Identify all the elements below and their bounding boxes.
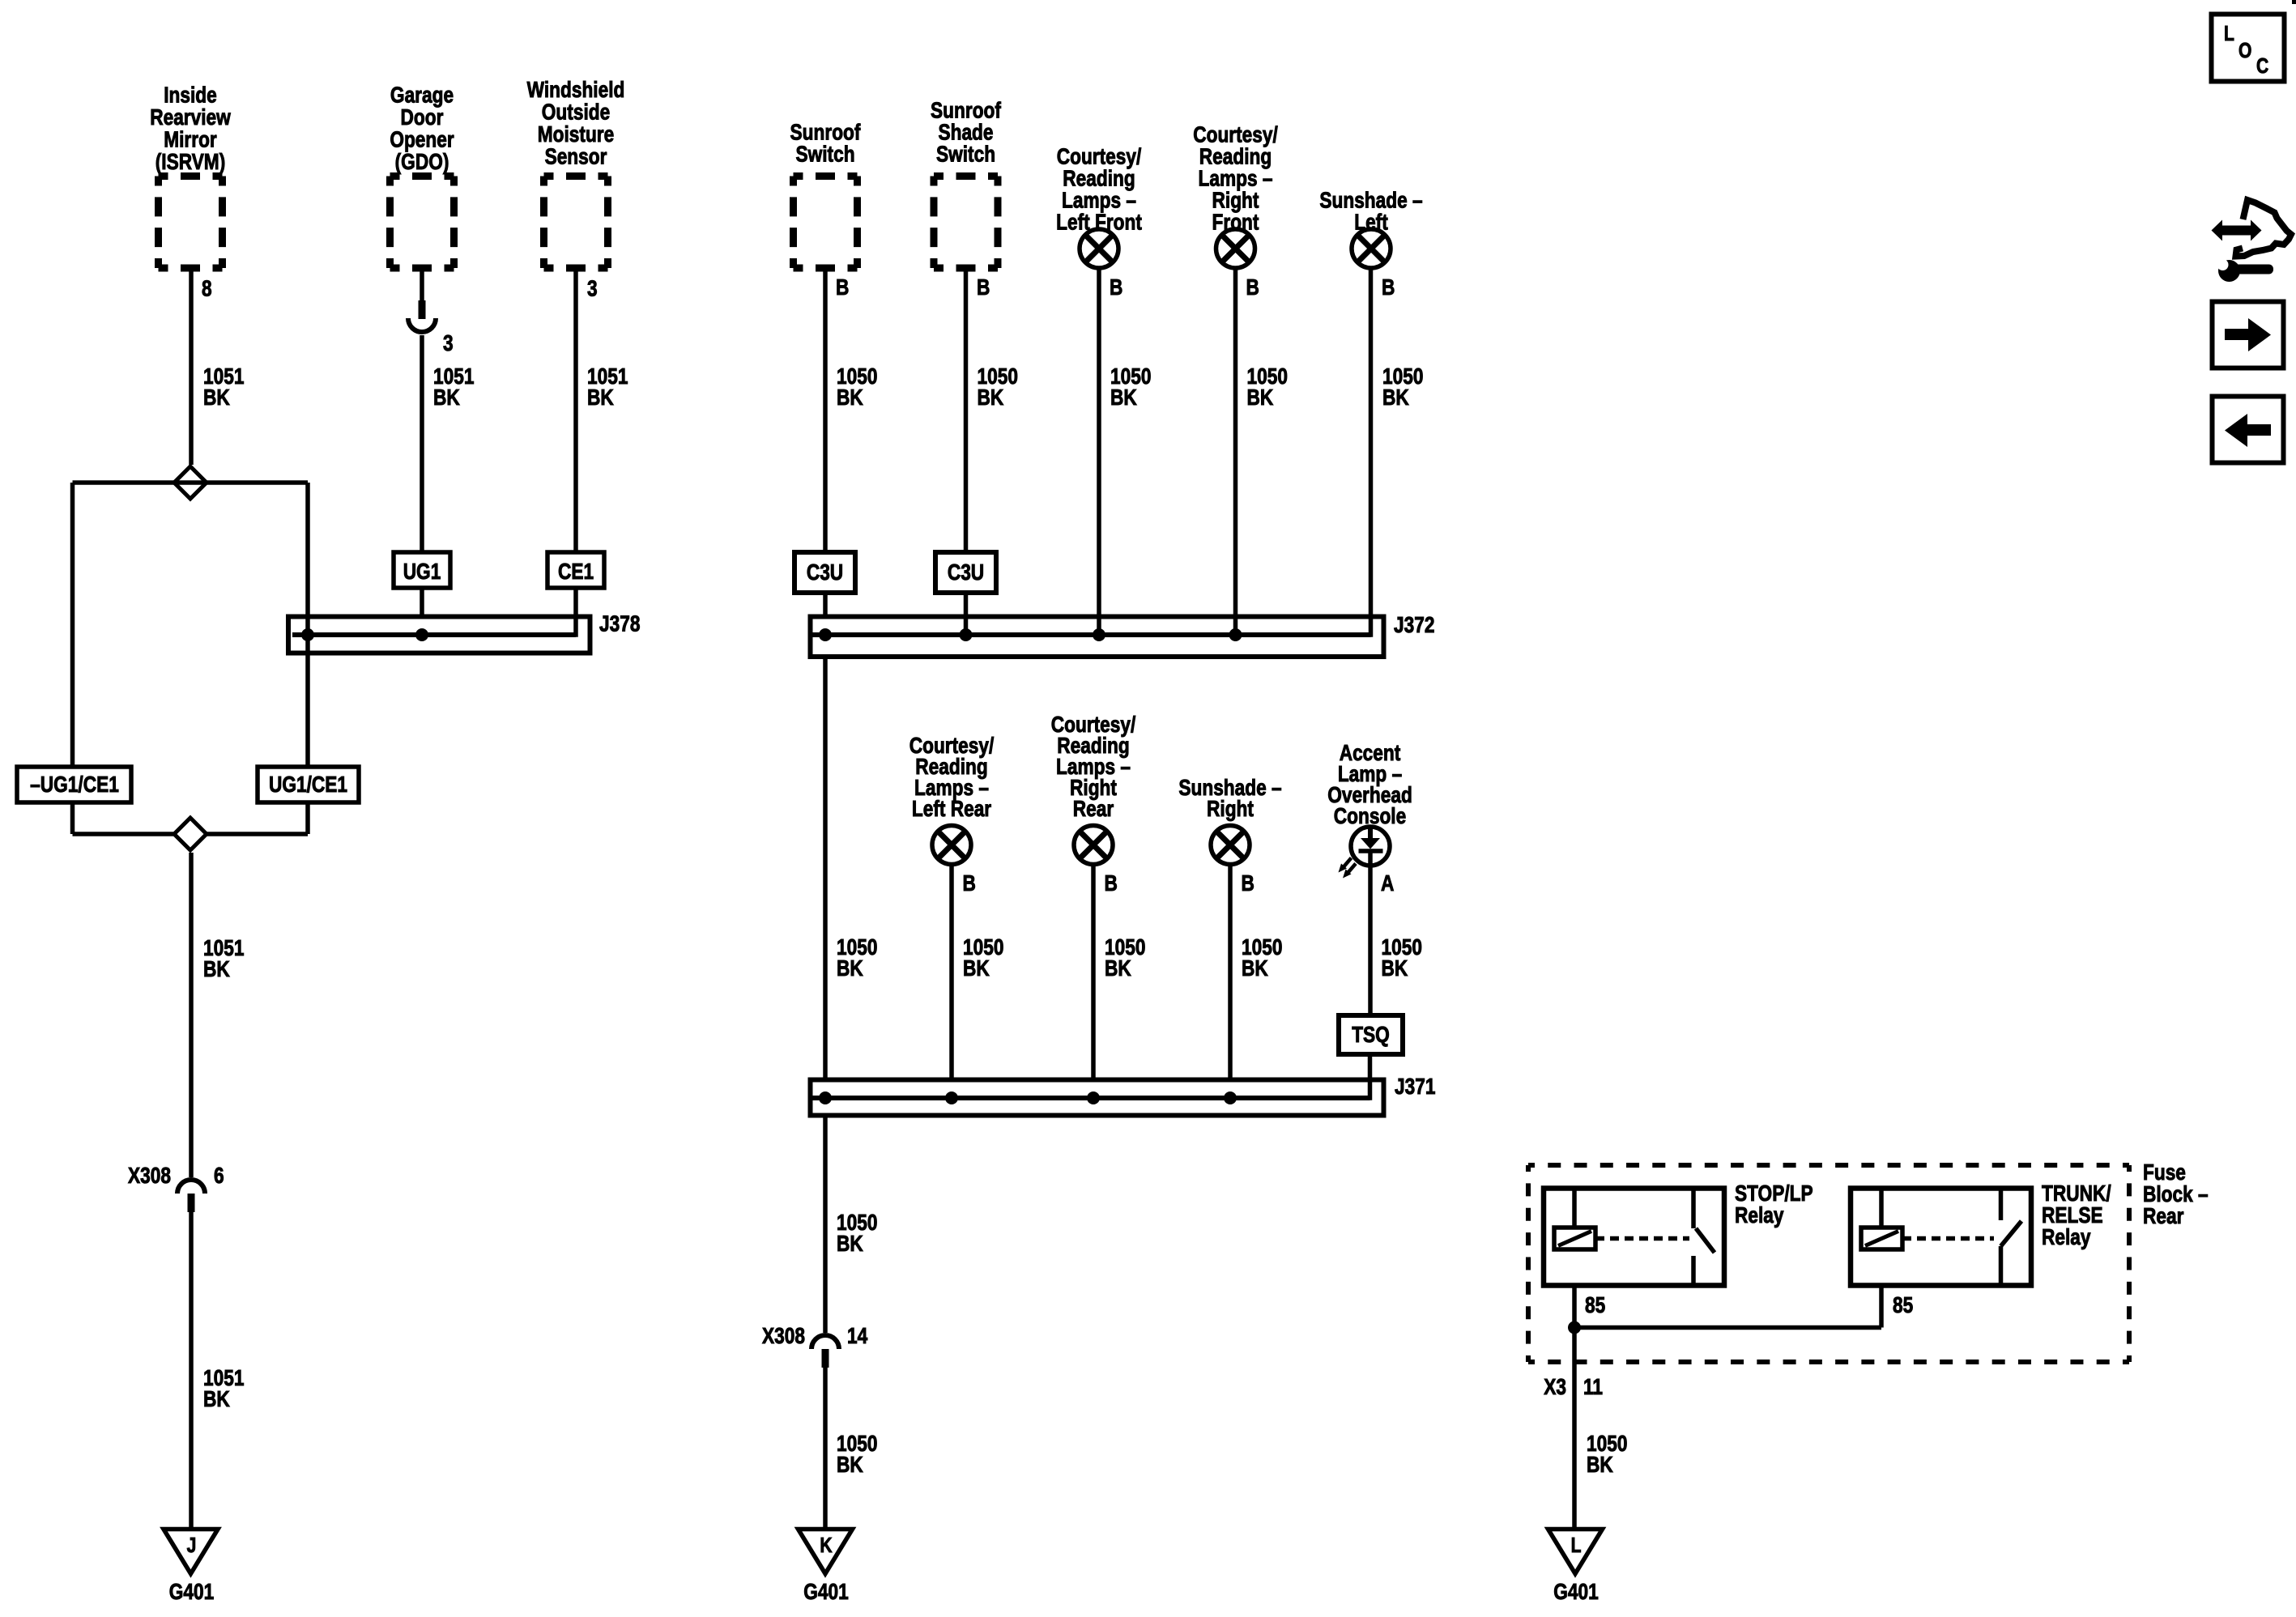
- component label Sunroof Switch: [790, 120, 861, 167]
- wire GDO to connector pin: [420, 272, 424, 301]
- connector sunroof switch (dashed box): [794, 177, 858, 269]
- svg-text:BK: BK: [837, 1453, 863, 1478]
- wire joining relay grounds: [1574, 1326, 1881, 1330]
- connector ISRVM (dashed box): [159, 177, 223, 269]
- wire label 1050 BK (sunshade left): [1382, 364, 1423, 411]
- svg-text:G401: G401: [803, 1580, 848, 1605]
- wire feeder J371 to X308-14: [823, 1116, 828, 1334]
- pin letter B (sunshade right): [1242, 871, 1254, 896]
- wire left branch lower: [70, 802, 75, 834]
- svg-text:B: B: [836, 275, 849, 300]
- relay TRUNK/RELSE coil: [1861, 1189, 1902, 1250]
- svg-text:G401: G401: [1553, 1580, 1598, 1605]
- svg-text:C3U: C3U: [948, 560, 984, 585]
- wire sensor pin 3 down: [573, 272, 578, 553]
- lamp Courtesy/Reading Left Front: [1080, 229, 1118, 268]
- svg-text:B: B: [977, 275, 990, 300]
- svg-text:J378: J378: [599, 611, 640, 636]
- pin number 85 (STOP/LP): [1585, 1293, 1605, 1318]
- component label Sunshade - Right: [1178, 776, 1281, 822]
- svg-text:–UG1/CE1: –UG1/CE1: [30, 772, 119, 798]
- wire label 1050 BK (shade switch): [978, 364, 1018, 411]
- svg-text:B: B: [1246, 275, 1259, 300]
- svg-text:BK: BK: [1382, 385, 1409, 411]
- svg-text:BK: BK: [203, 1387, 230, 1412]
- svg-text:K: K: [820, 1534, 832, 1558]
- wire label 1051 BK (sensor): [587, 364, 628, 411]
- wire sunroof switch pin B: [823, 272, 828, 553]
- svg-text:(ISRVM): (ISRVM): [155, 150, 225, 175]
- svg-text:Windshield: Windshield: [527, 78, 625, 103]
- wire shade switch pin B: [964, 272, 969, 553]
- relay TRUNK/RELSE switch contact: [2001, 1189, 2022, 1286]
- ground G401 L: [1548, 1530, 1603, 1605]
- wire connector to UG1 box: [420, 335, 424, 552]
- wire label 1050 BK (lamp RF): [1247, 364, 1288, 411]
- svg-text:BK: BK: [978, 385, 1004, 411]
- fuse block rear (dashed boundary): [1528, 1165, 2129, 1362]
- pin letter B (lamp RR): [1105, 871, 1118, 896]
- svg-text:Switch: Switch: [936, 142, 995, 167]
- component label Windshield Outside Moisture Sensor: [527, 78, 625, 169]
- net name box TSQ: [1339, 1015, 1403, 1054]
- wire label 1050 BK (to G401 L): [1587, 1432, 1627, 1478]
- component label Courtesy/Reading Lamps - Right Front: [1193, 122, 1278, 235]
- wire lamp LF pin B to J372: [1097, 267, 1101, 637]
- svg-text:(GDO): (GDO): [395, 150, 449, 175]
- pin number 85 (TRUNK/RELSE): [1893, 1293, 1913, 1318]
- svg-text:J: J: [187, 1534, 197, 1558]
- svg-text:BK: BK: [1242, 956, 1268, 981]
- svg-text:L: L: [1571, 1534, 1582, 1558]
- svg-text:Relay: Relay: [2042, 1225, 2091, 1250]
- svg-text:C: C: [2256, 55, 2268, 79]
- svg-text:14: 14: [847, 1324, 868, 1349]
- relay STOP/LP actuating dashed link: [1595, 1236, 1689, 1241]
- splice pack J378: [288, 617, 590, 653]
- svg-text:B: B: [1242, 871, 1254, 896]
- svg-text:Rearview: Rearview: [150, 105, 231, 130]
- wire TSQ to J371: [1368, 1054, 1373, 1100]
- svg-text:85: 85: [1585, 1293, 1605, 1318]
- svg-text:Outside: Outside: [542, 100, 610, 125]
- svg-text:BK: BK: [1587, 1453, 1613, 1478]
- connector X308 pin 6: [128, 1164, 224, 1212]
- wire left branch down: [70, 483, 75, 767]
- splice diamond S2: [174, 818, 207, 850]
- component label Courtesy/Reading Lamps - Left Front: [1056, 144, 1142, 235]
- page corner tick: [2292, 0, 2296, 4]
- svg-text:Inside: Inside: [164, 83, 217, 108]
- pin letter B (sunshade left): [1382, 275, 1395, 300]
- pin letter B (lamp RF): [1246, 275, 1259, 300]
- relay STOP/LP switch contact: [1693, 1189, 1715, 1286]
- pin number 8: [202, 276, 212, 301]
- wire label 1051 BK (to G401 J): [203, 1366, 244, 1412]
- svg-text:BK: BK: [203, 385, 230, 411]
- wire sunshade-right pin B to J371: [1228, 863, 1233, 1080]
- svg-text:X308: X308: [128, 1164, 171, 1189]
- relay TRUNK/RELSE actuating dashed link: [1902, 1236, 1994, 1241]
- wire splice to X308-6: [189, 853, 194, 1177]
- svg-text:L: L: [2224, 23, 2234, 46]
- net name box CE1: [547, 552, 604, 588]
- relay label STOP/LP Relay: [1735, 1181, 1813, 1228]
- svg-text:Switch: Switch: [795, 142, 854, 167]
- pin letter A (accent lamp): [1381, 871, 1394, 896]
- wire label 1050 BK (lamp LF): [1110, 364, 1151, 411]
- relay STOP/LP (box): [1544, 1189, 1724, 1286]
- wire label 1051 BK (to X308): [203, 936, 244, 982]
- wire label 1050 BK (feeder lower): [837, 1211, 877, 1257]
- svg-text:BK: BK: [837, 956, 863, 981]
- svg-text:BK: BK: [1382, 956, 1408, 981]
- svg-text:UG1: UG1: [403, 560, 441, 585]
- lamp Sunshade Right: [1211, 826, 1250, 865]
- wire TRUNK/RELSE pin 85: [1879, 1286, 1884, 1328]
- connector label X3 pin 11: [1544, 1375, 1603, 1400]
- svg-text:B: B: [963, 871, 976, 896]
- diagnostic connector icon (outline, double arrow, wrench): [2212, 200, 2292, 282]
- svg-text:BK: BK: [1247, 385, 1274, 411]
- svg-text:BK: BK: [963, 956, 990, 981]
- svg-text:B: B: [1382, 275, 1395, 300]
- pin letter B (shade switch): [977, 275, 990, 300]
- option box UG1/CE1: [258, 767, 359, 802]
- component label Accent Lamp - Overhead Console: [1327, 741, 1412, 829]
- wire C3U to J372: [823, 593, 828, 617]
- connector moisture sensor (dashed box): [544, 177, 608, 269]
- svg-text:J371: J371: [1395, 1074, 1435, 1100]
- wire lamp RF pin B to J372: [1233, 267, 1238, 637]
- wire ISRVM pin 8 to splice diamond: [189, 272, 194, 466]
- lamp Sunshade Left: [1352, 229, 1391, 268]
- svg-text:11: 11: [1583, 1375, 1603, 1400]
- pin number 3 (sensor): [587, 276, 598, 301]
- wire accent lamp to TSQ: [1368, 866, 1373, 1015]
- back arrow box icon: [2213, 397, 2284, 463]
- wire label 1050 BK (lamp RR): [1105, 935, 1145, 981]
- svg-text:Sensor: Sensor: [545, 144, 607, 169]
- svg-text:Opener: Opener: [390, 127, 454, 152]
- lamp Courtesy/Reading Right Rear: [1074, 826, 1113, 865]
- wire right branch lower: [305, 802, 310, 834]
- svg-text:Left Rear: Left Rear: [912, 797, 991, 822]
- svg-text:CE1: CE1: [558, 560, 594, 585]
- svg-text:BK: BK: [1110, 385, 1137, 411]
- splice pack label J378: [599, 611, 640, 636]
- wire STOP/LP pin 85: [1572, 1286, 1577, 1328]
- wire branch bottom horizontal: [73, 832, 309, 836]
- svg-text:O: O: [2238, 40, 2251, 63]
- LOC location-code box icon: [2212, 15, 2285, 82]
- option box -UG1/CE1: [17, 767, 131, 802]
- svg-text:Relay: Relay: [1735, 1203, 1784, 1228]
- component label Garage Door Opener (GDO): [390, 83, 454, 174]
- inline connector pin 3 (GDO): [408, 300, 454, 356]
- pin letter B (lamp LF): [1110, 275, 1122, 300]
- wire label 1051 BK (GDO): [433, 364, 474, 411]
- wire branch top horizontal: [73, 480, 309, 485]
- svg-text:G401: G401: [169, 1580, 214, 1605]
- wire feeder J372 to J371: [823, 657, 828, 1080]
- svg-text:BK: BK: [837, 385, 863, 411]
- svg-text:3: 3: [443, 331, 454, 356]
- wire label 1050 BK (lamp LR): [963, 935, 1003, 981]
- wire lamp LR pin B to J371: [949, 863, 954, 1080]
- wire right branch down: [305, 483, 310, 767]
- splice diamond S1: [174, 466, 207, 499]
- connector GDO (dashed box): [390, 177, 454, 269]
- svg-text:X308: X308: [762, 1324, 805, 1349]
- relay label TRUNK/RELSE Relay: [2042, 1181, 2111, 1250]
- wire label 1050 BK (sunshade right): [1242, 935, 1282, 981]
- pin letter B (lamp LR): [963, 871, 976, 896]
- ground G401 J: [164, 1530, 218, 1605]
- svg-text:BK: BK: [1105, 956, 1131, 981]
- wire X308-14 to ground K: [823, 1368, 828, 1527]
- splice pack J372: [811, 617, 1384, 657]
- wire sunshade-left pin B to J372: [1369, 267, 1374, 637]
- wire lamp RR pin B to J371: [1091, 863, 1096, 1080]
- wire label 1051 BK (ISRVM): [203, 364, 244, 411]
- svg-text:6: 6: [214, 1164, 224, 1189]
- junction node (relay ground join): [1568, 1321, 1581, 1334]
- wire X308-6 to ground J: [189, 1212, 194, 1527]
- component label Sunroof Shade Switch: [931, 98, 1001, 167]
- svg-text:BK: BK: [587, 385, 614, 411]
- fuse block label Fuse Block - Rear: [2143, 1160, 2209, 1229]
- svg-text:Mirror: Mirror: [164, 127, 217, 152]
- wire UG1 box to J378: [420, 588, 424, 617]
- svg-text:J372: J372: [1394, 613, 1434, 638]
- connector X308 pin 14: [762, 1324, 868, 1368]
- svg-text:C3U: C3U: [807, 560, 843, 585]
- svg-text:Rear: Rear: [1073, 797, 1114, 822]
- wire C3U-2 to J372: [964, 593, 969, 637]
- svg-text:A: A: [1381, 871, 1394, 896]
- lamp Courtesy/Reading Right Front: [1216, 229, 1255, 268]
- forward arrow box icon: [2213, 302, 2284, 368]
- wire label 1050 BK (sunroof switch): [837, 364, 877, 411]
- wire label 1050 BK (to G401 K): [837, 1432, 877, 1478]
- svg-text:Door: Door: [401, 105, 444, 130]
- svg-text:BK: BK: [837, 1232, 863, 1257]
- wire label 1050 BK (accent lamp): [1382, 935, 1422, 981]
- svg-text:TSQ: TSQ: [1352, 1023, 1390, 1048]
- ground G401 K: [799, 1530, 853, 1605]
- net name box C3U (sunroof switch): [794, 552, 855, 593]
- wire CE1 box to J378: [573, 588, 578, 637]
- wire fuse block to ground L: [1572, 1328, 1577, 1528]
- svg-text:3: 3: [587, 276, 598, 301]
- svg-text:Rear: Rear: [2143, 1204, 2183, 1229]
- svg-text:Moisture: Moisture: [538, 122, 614, 147]
- svg-text:85: 85: [1893, 1293, 1913, 1318]
- svg-text:BK: BK: [433, 385, 460, 411]
- svg-text:X3: X3: [1544, 1375, 1566, 1400]
- splice pack label J372: [1394, 613, 1434, 638]
- relay STOP/LP coil: [1554, 1189, 1595, 1250]
- svg-text:B: B: [1110, 275, 1122, 300]
- LED accent lamp overhead console: [1339, 827, 1391, 879]
- svg-text:Garage: Garage: [390, 83, 454, 108]
- svg-text:Right: Right: [1207, 797, 1254, 822]
- net name box UG1: [394, 552, 450, 588]
- pin letter B (sunroof switch): [836, 275, 849, 300]
- svg-text:B: B: [1105, 871, 1118, 896]
- component label Courtesy/Reading Lamps - Left Rear: [909, 734, 995, 822]
- relay TRUNK/RELSE (box): [1851, 1189, 2031, 1286]
- wire label 1050 BK (feeder upper): [837, 935, 877, 981]
- component label Courtesy/Reading Lamps - Right Rear: [1051, 713, 1136, 822]
- net name box C3U (shade switch): [935, 552, 996, 593]
- svg-text:BK: BK: [203, 957, 230, 982]
- svg-text:UG1/CE1: UG1/CE1: [269, 772, 347, 798]
- lamp Courtesy/Reading Left Rear: [932, 826, 971, 865]
- splice pack J371: [811, 1080, 1384, 1116]
- component label Sunshade - Left: [1319, 188, 1422, 235]
- component label Inside Rearview Mirror (ISRVM): [150, 83, 231, 174]
- splice pack label J371: [1395, 1074, 1435, 1100]
- svg-text:8: 8: [202, 276, 212, 301]
- connector shade switch (dashed box): [934, 177, 998, 269]
